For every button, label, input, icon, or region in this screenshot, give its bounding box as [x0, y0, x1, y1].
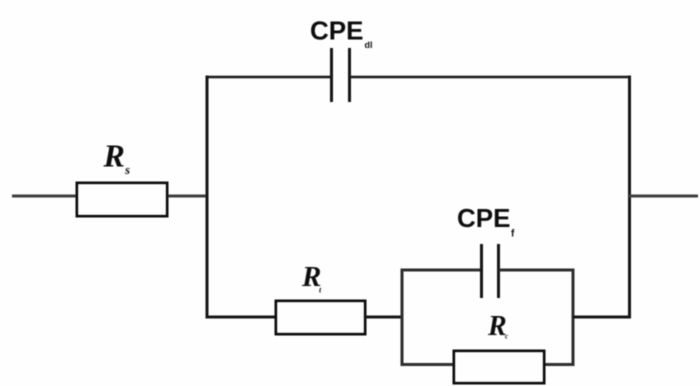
- resistor Rt: [276, 301, 365, 334]
- svg-text:f: f: [511, 229, 515, 240]
- wire inner loop left vertical: [401, 269, 404, 367]
- wire inner loop to right bus: [573, 316, 630, 319]
- wire left vertical bus: [206, 76, 209, 319]
- capacitor CPE_dl: [332, 48, 350, 102]
- svg-text:CPE: CPE: [457, 203, 510, 233]
- wire right vertical bus: [628, 76, 631, 319]
- wire top rail right segment: [350, 76, 631, 79]
- svg-text:R: R: [103, 138, 125, 174]
- svg-text:dl: dl: [365, 40, 373, 50]
- svg-text:c: c: [505, 333, 508, 341]
- svg-text:t: t: [319, 286, 322, 295]
- svg-text:s: s: [124, 162, 130, 177]
- wire Rt to inner loop: [365, 316, 402, 319]
- wire left lead: [12, 195, 78, 198]
- resistor Rf: [454, 351, 544, 383]
- wire inner loop bottom rail: [401, 363, 575, 366]
- wire inner loop top right segment: [499, 269, 575, 272]
- svg-text:CPE: CPE: [310, 16, 363, 46]
- wire inner loop top left segment: [401, 269, 482, 272]
- wire top rail left segment: [206, 76, 331, 79]
- resistor Rs: [77, 183, 167, 216]
- svg-text:R: R: [487, 311, 507, 342]
- wire right lead: [629, 195, 698, 198]
- wire Rs to left bus: [166, 195, 207, 198]
- wire bottom rail left segment: [206, 316, 277, 319]
- capacitor CPE_f: [482, 244, 499, 298]
- wire inner loop right vertical: [572, 269, 575, 367]
